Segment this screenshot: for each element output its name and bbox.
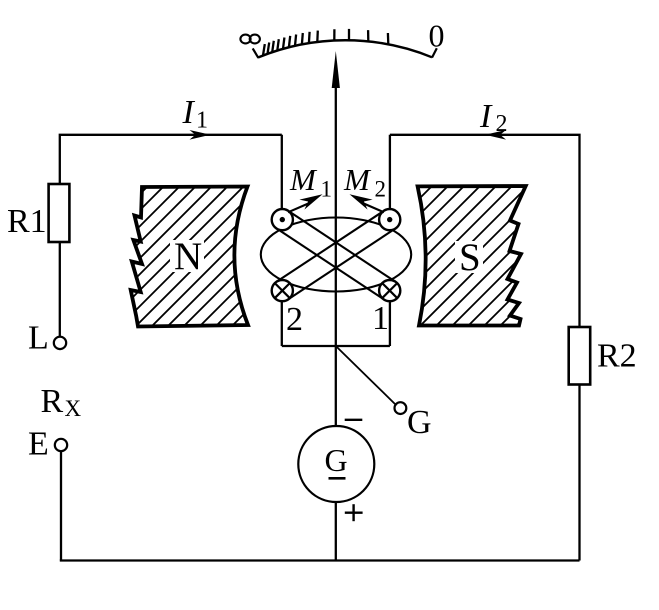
wire R2 to bottom — [578, 385, 580, 561]
galvanometer G — [298, 426, 374, 502]
coil terminal X 1 (bottom-right, current in) — [379, 280, 400, 301]
label infinity — [240, 35, 260, 44]
coil frame left vertical — [281, 135, 283, 209]
svg-text:1: 1 — [321, 177, 333, 202]
svg-text:G: G — [407, 404, 432, 441]
resistor R1 — [49, 184, 70, 242]
svg-text:R2: R2 — [597, 338, 637, 375]
svg-text:R: R — [41, 383, 64, 420]
pointer needle — [332, 51, 340, 88]
svg-text:M: M — [289, 162, 318, 197]
scale ticks — [263, 29, 388, 56]
svg-text:I: I — [479, 98, 493, 135]
svg-text:M: M — [343, 162, 372, 197]
label S backing — [455, 241, 483, 273]
meter scale arc — [258, 40, 432, 57]
svg-text:X: X — [65, 396, 82, 421]
wire top-left — [60, 135, 282, 185]
arrow M2 — [364, 204, 384, 213]
arrow I1 — [190, 130, 211, 140]
svg-text:R1: R1 — [7, 203, 47, 240]
wire E to bottom — [60, 451, 62, 561]
svg-text:1: 1 — [372, 300, 389, 337]
scale tick right terminal — [432, 48, 437, 57]
svg-text:1: 1 — [196, 108, 208, 134]
svg-text:N: N — [174, 235, 202, 278]
wire to terminal G — [336, 346, 396, 405]
wire top-right — [390, 135, 580, 327]
coil terminal dot M2 (top-right, current out) — [379, 209, 400, 230]
bottom wire — [60, 559, 580, 561]
svg-text:0: 0 — [429, 18, 445, 54]
svg-text:E: E — [28, 426, 49, 463]
svg-text:G: G — [325, 442, 348, 478]
svg-text:2: 2 — [496, 111, 508, 137]
svg-text:2: 2 — [286, 301, 303, 338]
scale tick left terminal — [253, 48, 259, 58]
label N backing — [170, 240, 204, 272]
svg-text:L: L — [28, 320, 49, 357]
svg-text:S: S — [459, 236, 481, 279]
polarity plus — [345, 504, 363, 521]
pole N hatching — [0, 150, 424, 350]
terminal G — [395, 402, 407, 414]
coil band 2 (TR to BL) — [277, 211, 384, 282]
svg-text:2: 2 — [375, 177, 387, 202]
polarity minus — [345, 419, 363, 421]
svg-text:I: I — [182, 94, 196, 131]
coil frame right vertical — [389, 135, 391, 209]
coil ellipse — [261, 218, 411, 292]
arrow I2 — [485, 130, 506, 140]
wire R1 to L — [59, 242, 61, 337]
terminal E — [55, 439, 67, 451]
pole N outline — [131, 187, 248, 327]
coil frame bottom — [282, 345, 390, 347]
arrow M1 — [288, 204, 308, 213]
coil terminal X 2 (bottom-left, current in) — [272, 280, 293, 301]
terminal L — [54, 337, 66, 349]
coil terminal dot M1 (top-left, current out) — [272, 209, 293, 230]
resistor R2 — [569, 327, 591, 385]
coil band 1 (TL to BR) — [277, 228, 384, 299]
pole S hatching — [252, 150, 659, 350]
wire galvanometer to bottom — [335, 503, 337, 561]
pointer shaft — [335, 85, 337, 425]
pole S outline — [418, 186, 526, 326]
